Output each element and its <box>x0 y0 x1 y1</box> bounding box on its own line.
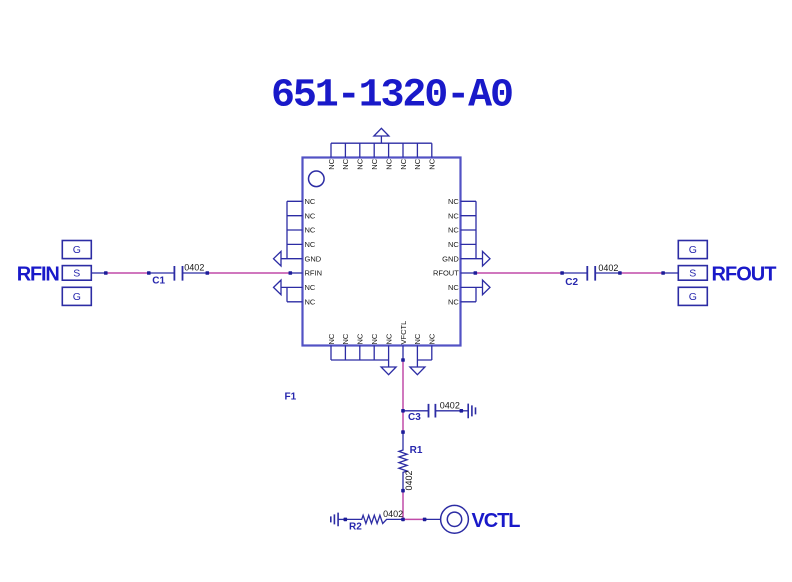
capacitor C2 <box>562 266 620 281</box>
junction above R1 <box>401 430 405 434</box>
connector J2 RFOUT (G-S-G) <box>678 241 707 259</box>
junction <box>147 271 151 275</box>
wire VFCTL pin stub <box>402 346 404 361</box>
svg-text:NC: NC <box>305 283 316 292</box>
ground arrow top (off-page up) <box>374 128 389 143</box>
wire net VFCTL down segment 2 <box>402 411 404 432</box>
svg-text:NC: NC <box>448 283 459 292</box>
svg-text:G: G <box>689 244 697 256</box>
svg-text:C1: C1 <box>152 276 165 287</box>
svg-text:VCTL: VCTL <box>472 510 521 532</box>
svg-text:C2: C2 <box>565 277 578 288</box>
svg-text:NC: NC <box>356 158 365 169</box>
bottom NC pins 1-5 ladder <box>331 346 389 361</box>
svg-text:NC: NC <box>305 297 316 306</box>
svg-text:RFOUT: RFOUT <box>433 269 459 278</box>
junction below R1 <box>401 489 405 493</box>
svg-text:NC: NC <box>305 211 316 220</box>
svg-text:VFCTL: VFCTL <box>399 321 408 345</box>
svg-text:NC: NC <box>341 333 350 344</box>
junction <box>423 518 427 522</box>
ground (signal gnd right of C3) <box>468 404 475 419</box>
svg-text:NC: NC <box>448 226 459 235</box>
svg-text:NC: NC <box>448 211 459 220</box>
ground arrow bottom-right <box>410 360 425 375</box>
left NC pins 7-8 bracket <box>281 287 303 301</box>
svg-text:0402: 0402 <box>383 509 403 519</box>
svg-text:NC: NC <box>399 158 408 169</box>
svg-text:NC: NC <box>384 158 393 169</box>
svg-text:NC: NC <box>384 333 393 344</box>
junction at C3 tap <box>401 409 405 413</box>
junction <box>618 271 622 275</box>
svg-text:NC: NC <box>448 240 459 249</box>
wire net RFIN_J1 <box>106 272 149 274</box>
svg-text:GND: GND <box>305 254 322 263</box>
junction main VCTL node <box>401 518 405 522</box>
left NC pins 1-4 + GND pin 5 ladder <box>281 201 303 258</box>
junction at U1 RFIN pin <box>289 271 293 275</box>
wire to VCTL connector <box>425 518 441 520</box>
svg-text:NC: NC <box>428 158 437 169</box>
wire net RFOUT_J2 <box>620 272 663 274</box>
right NC pins 7-8 bracket <box>461 287 483 301</box>
resistor R2 <box>345 515 403 523</box>
svg-text:NC: NC <box>305 240 316 249</box>
wire net RFOUT from U1 <box>475 272 562 274</box>
svg-text:NC: NC <box>370 333 379 344</box>
svg-text:0402: 0402 <box>184 263 204 273</box>
svg-text:G: G <box>73 244 81 256</box>
svg-text:NC: NC <box>448 197 459 206</box>
svg-text:NC: NC <box>413 333 422 344</box>
junction <box>460 409 464 413</box>
wire RFIN pin stub <box>290 272 302 274</box>
svg-text:G: G <box>689 291 697 303</box>
svg-text:RFIN: RFIN <box>17 264 60 286</box>
connector J3 VCTL (coax) <box>441 505 469 533</box>
svg-text:S: S <box>689 268 696 280</box>
svg-text:RFOUT: RFOUT <box>712 264 777 286</box>
svg-text:NC: NC <box>305 226 316 235</box>
junction <box>560 271 564 275</box>
ground arrow right NC7 <box>483 280 491 295</box>
ground arrow bottom-left <box>381 360 396 375</box>
ground arrow right GND <box>483 251 491 266</box>
svg-text:NC: NC <box>305 197 316 206</box>
svg-text:R2: R2 <box>349 521 362 532</box>
IC U1 body (651-1320) <box>303 158 461 346</box>
ground arrow left GND <box>274 251 282 266</box>
svg-text:651-1320-A0: 651-1320-A0 <box>271 74 514 119</box>
resistor R1 <box>399 432 407 491</box>
ground arrow left NC7 <box>274 280 282 295</box>
wire S box to junction <box>91 272 106 274</box>
svg-text:NC: NC <box>428 333 437 344</box>
svg-text:NC: NC <box>327 333 336 344</box>
svg-text:R1: R1 <box>410 445 423 456</box>
junction <box>344 518 348 522</box>
junction <box>206 271 210 275</box>
svg-text:GND: GND <box>442 254 459 263</box>
wire net RFIN to U1 <box>207 272 290 274</box>
svg-text:G: G <box>73 291 81 303</box>
junction <box>104 271 108 275</box>
junction at U1 RFOUT pin <box>474 271 478 275</box>
svg-text:NC: NC <box>356 333 365 344</box>
junction at VFCTL pin <box>401 358 405 362</box>
svg-text:C3: C3 <box>408 412 421 423</box>
svg-text:S: S <box>73 268 80 280</box>
wire RFOUT pin stub <box>461 272 476 274</box>
svg-text:RFIN: RFIN <box>305 269 323 278</box>
svg-text:NC: NC <box>327 158 336 169</box>
wire gnd to junction <box>338 518 345 520</box>
junction <box>661 271 665 275</box>
wire to ground <box>461 410 468 412</box>
svg-text:NC: NC <box>413 158 422 169</box>
connector J1 RFIN (G-S-G) <box>62 241 91 259</box>
svg-text:0402: 0402 <box>404 470 414 490</box>
top NC pins 32-25 ladder <box>331 143 432 157</box>
ground (signal gnd left of R2) <box>331 513 338 527</box>
svg-text:0402: 0402 <box>440 400 460 410</box>
svg-text:NC: NC <box>341 158 350 169</box>
wire junction to S box <box>663 272 678 274</box>
svg-text:F1: F1 <box>285 392 297 403</box>
wire net VFCTL down segment 1 <box>402 360 404 411</box>
wire net VFCTL down segment 3 <box>402 491 404 520</box>
bottom NC pins 7-8 bracket <box>417 346 431 361</box>
capacitor C1 <box>149 266 208 281</box>
svg-text:NC: NC <box>370 158 379 169</box>
svg-text:0402: 0402 <box>598 263 618 273</box>
svg-text:NC: NC <box>448 297 459 306</box>
right NC pins + GND ladder <box>461 201 483 258</box>
capacitor C3 <box>403 404 461 418</box>
wire net VCTL <box>403 518 425 520</box>
